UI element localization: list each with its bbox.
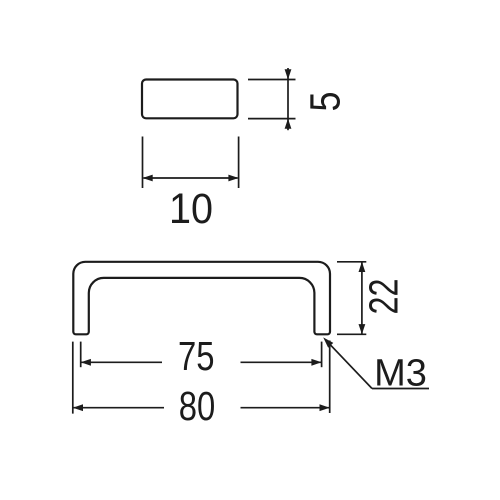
svg-text:75: 75 bbox=[178, 333, 215, 379]
dimension line 10 bbox=[144, 177, 238, 179]
arrowhead down at bottom of dim 22 bbox=[359, 324, 366, 334]
arrowhead down at top of dim 5 bbox=[285, 69, 292, 79]
svg-text:M3: M3 bbox=[374, 353, 427, 395]
arrowhead right of dim 80 bbox=[320, 404, 330, 411]
leader horizontal line bbox=[372, 388, 429, 390]
dimension line 75 left segment bbox=[81, 361, 162, 363]
dimension line 75 right segment bbox=[241, 361, 322, 363]
extension line bottom-right of rectangle bbox=[248, 118, 296, 120]
top view rectangle bbox=[142, 80, 238, 119]
extension line below left leg outer (for 80) bbox=[72, 342, 74, 414]
arrowhead up at bottom of dim 5 bbox=[285, 119, 292, 129]
dimension line 22 (vertical) bbox=[361, 263, 363, 334]
arrowhead left of dim 80 bbox=[73, 404, 83, 411]
arrowhead left of dim 10 bbox=[143, 175, 153, 182]
extension line top of dim 22 bbox=[337, 261, 366, 263]
handle outline (front view) bbox=[73, 262, 330, 335]
extension line below right leg outer (for 80) bbox=[329, 341, 331, 414]
leader arrowhead at right leg corner bbox=[323, 337, 333, 347]
dimension line 80 left segment bbox=[73, 407, 164, 409]
extension line below left leg center (for 75) bbox=[80, 342, 82, 368]
arrowhead left of dim 75 bbox=[81, 359, 91, 366]
extension line bottom of dim 22 bbox=[337, 333, 366, 335]
svg-text:22: 22 bbox=[361, 279, 407, 315]
svg-text:80: 80 bbox=[179, 383, 216, 429]
extension line below-right of rectangle bbox=[238, 137, 240, 189]
svg-text:10: 10 bbox=[169, 186, 213, 233]
leader diagonal line bbox=[327, 341, 373, 389]
extension line below-left of rectangle bbox=[142, 137, 144, 189]
extension line top-right of rectangle bbox=[248, 79, 296, 81]
arrowhead right of dim 10 bbox=[228, 175, 238, 182]
arrowhead up at top of dim 22 bbox=[359, 262, 366, 272]
arrowhead right of dim 75 bbox=[311, 359, 321, 366]
dimension line 80 right segment bbox=[241, 407, 330, 409]
extension line below right leg center (for 75) bbox=[321, 342, 323, 368]
svg-text:5: 5 bbox=[302, 92, 349, 112]
dimension line 5 (vertical) bbox=[287, 68, 289, 130]
